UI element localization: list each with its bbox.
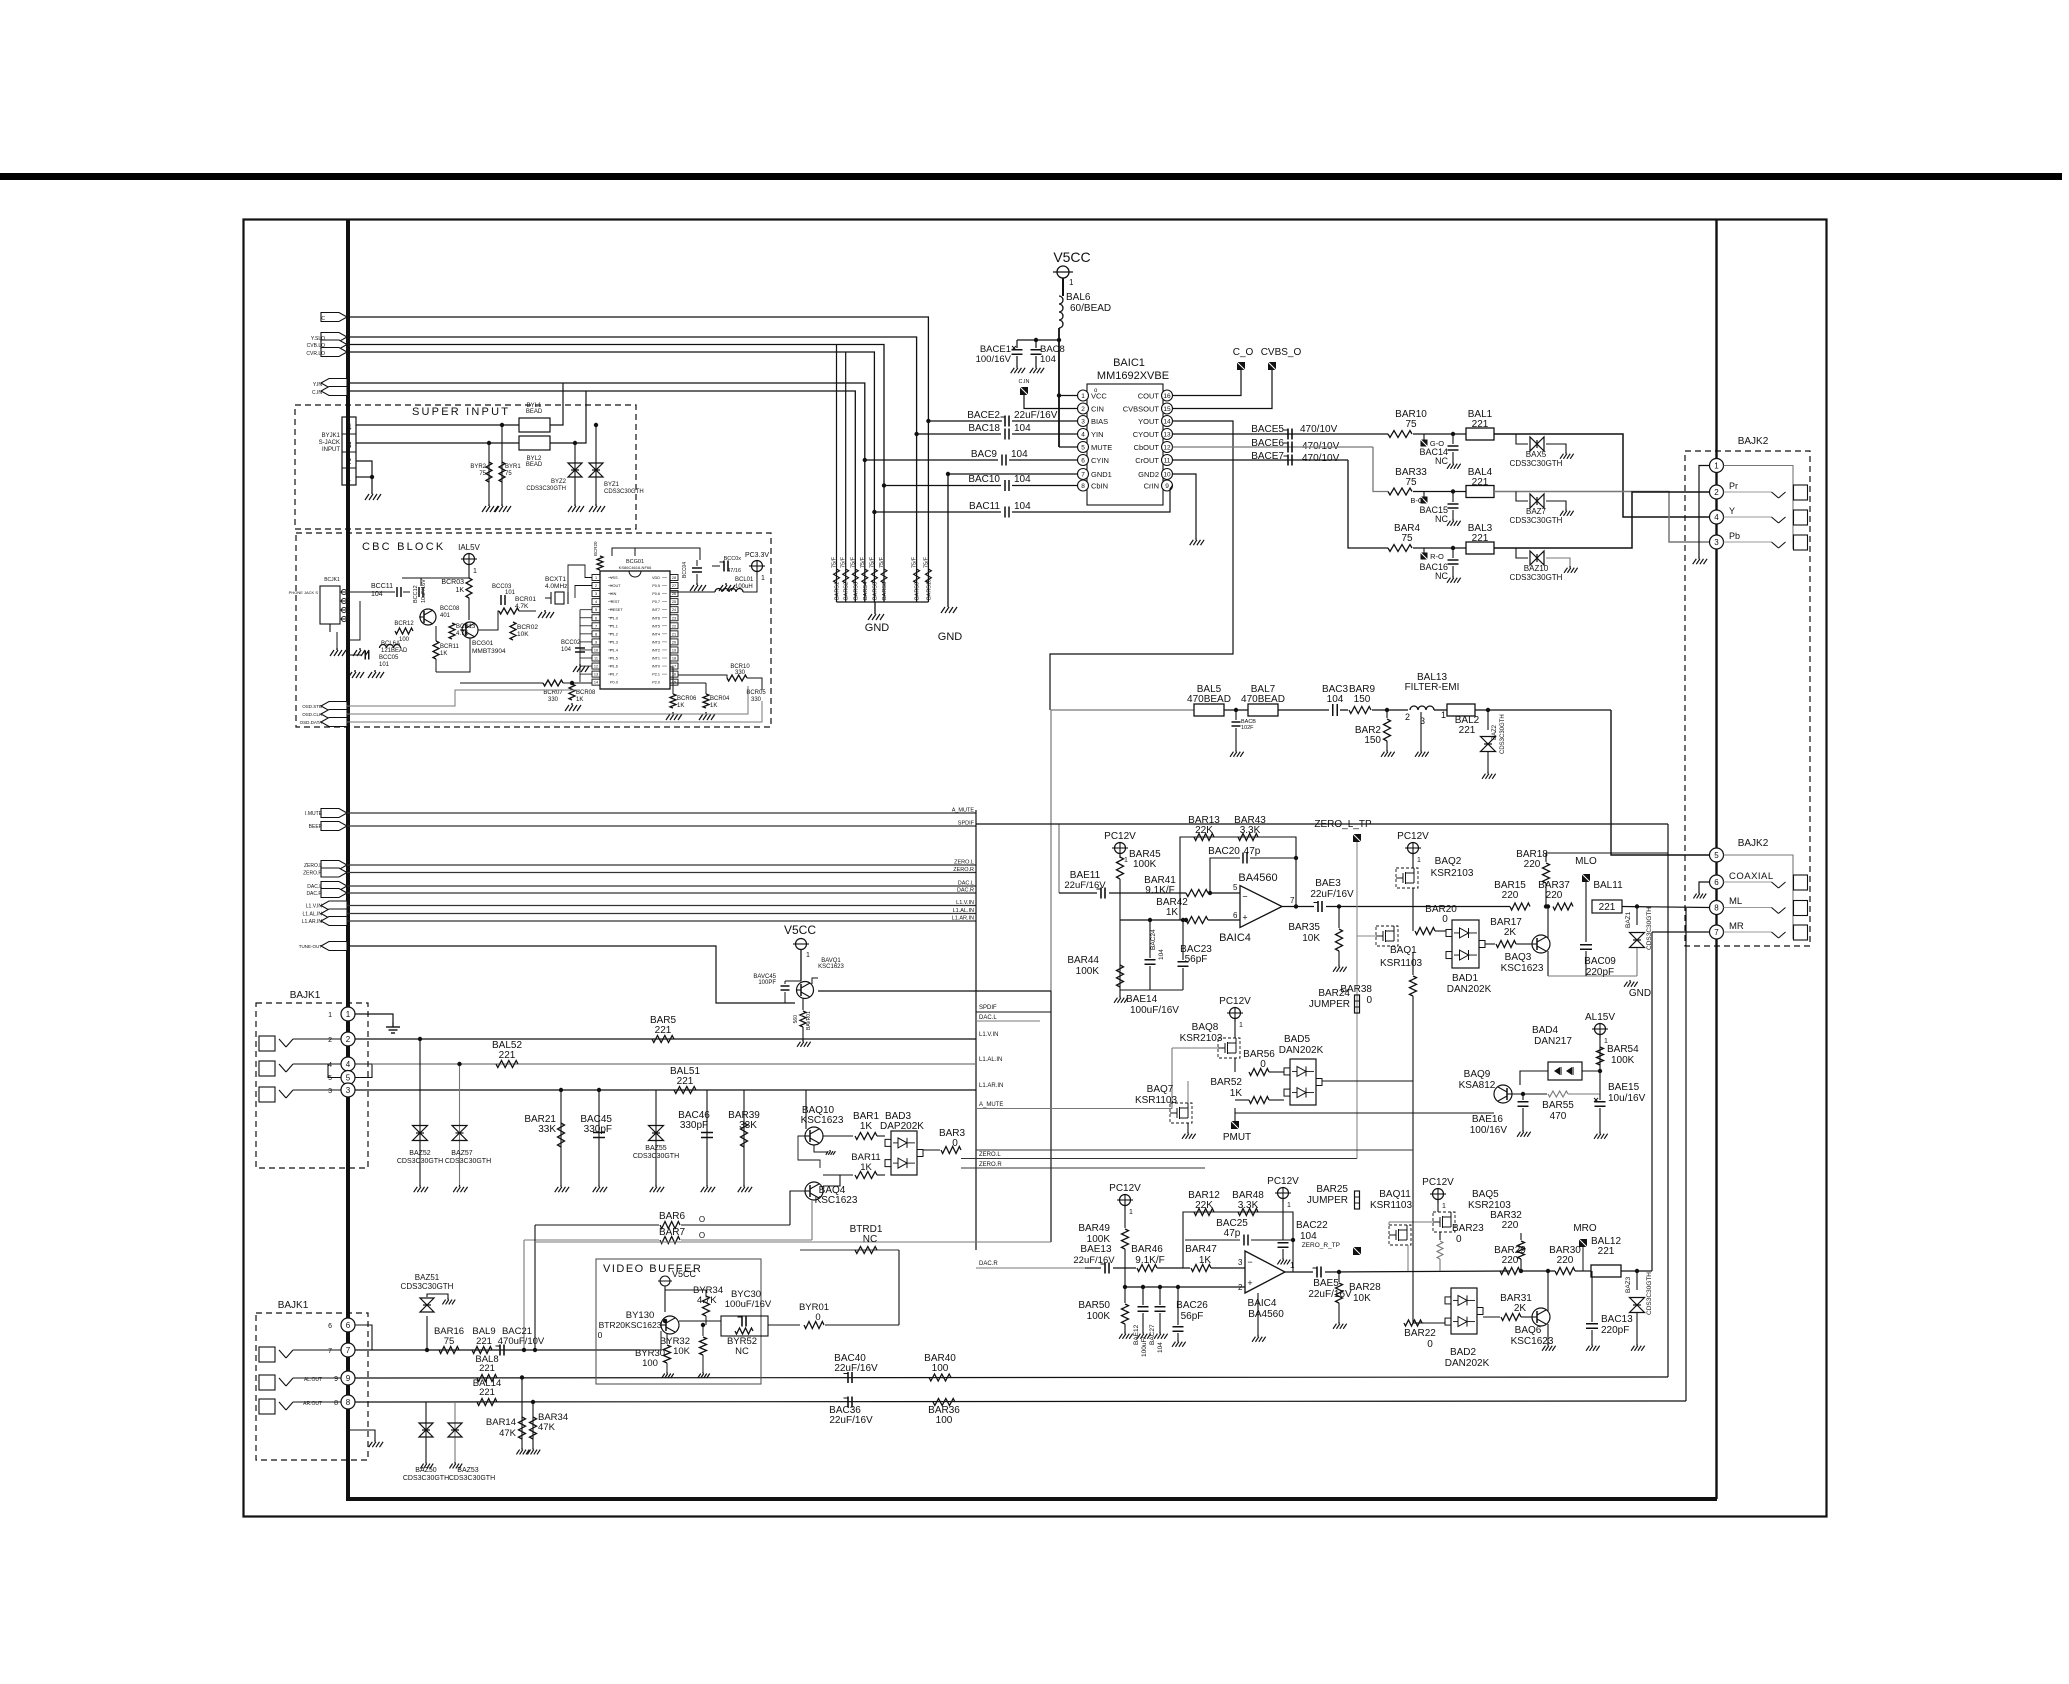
svg-text:VDD: VDD (652, 576, 660, 580)
node B-O (1421, 497, 1428, 504)
svg-text:BAZ1: BAZ1 (1625, 911, 1632, 928)
ground (BAZ55) (655, 1185, 657, 1187)
svg-text:BAR47: BAR47 (1185, 1244, 1217, 1255)
pin5 MUTE stub (1059, 446, 1078, 448)
svg-text:L1.AL.IN: L1.AL.IN (303, 912, 323, 918)
svg-text:BEAD: BEAD (526, 409, 543, 415)
svg-text:Y: Y (1729, 506, 1735, 516)
wire YOUT (pin14) to filter riser (1050, 421, 1233, 710)
svg-text:1: 1 (1069, 278, 1074, 287)
ground (BAJK1 lower) (374, 1440, 376, 1442)
ground (BAC14) (1452, 462, 1454, 464)
BAIC1 pin 15 CVBSOUT (1162, 403, 1173, 414)
svg-text:CVBSOUT: CVBSOUT (1123, 405, 1160, 414)
svg-text:BCL6A: BCL6A (381, 641, 400, 647)
svg-text:330pF: 330pF (584, 1124, 612, 1135)
wire BAQ10 emitter to gnd tick (814, 1145, 828, 1152)
svg-text:2K: 2K (1514, 1303, 1527, 1314)
wire AR_OUT riser right (1685, 908, 1687, 1401)
svg-text:22uF/16V: 22uF/16V (829, 1415, 873, 1426)
connector arrow CVB.LO (321, 340, 347, 349)
wire DAC.L entry (976, 1020, 1040, 1022)
svg-text:47p: 47p (1224, 1228, 1241, 1239)
svg-text:5: 5 (1714, 851, 1719, 860)
svg-text:DAC.R: DAC.R (306, 891, 322, 897)
wire filter riser (1050, 710, 1052, 991)
svg-text:BAR22: BAR22 (1404, 1328, 1436, 1339)
resistor BAR39 33K (743, 1090, 745, 1185)
svg-text:0: 0 (1442, 914, 1448, 925)
svg-text:DAC.L: DAC.L (958, 881, 974, 887)
test point ZERO_R_TP (1353, 1247, 1361, 1255)
svg-text:SPDIF: SPDIF (958, 821, 975, 827)
svg-text:VSS: VSS (610, 576, 618, 580)
jack Y (1724, 516, 1772, 518)
svg-text:104: 104 (1040, 354, 1056, 365)
BAIC1 pin 16 COUT (1162, 390, 1173, 401)
svg-text:PC12V: PC12V (1104, 831, 1136, 842)
svg-text:47p: 47p (1244, 846, 1261, 857)
wire y853 stub (1546, 852, 1668, 854)
svg-text:5: 5 (1081, 445, 1085, 452)
capacitor BAE12 100uF/16V (1142, 1287, 1144, 1305)
diode BAZ2 CDS3C30GTH to gnd (1486, 708, 1490, 712)
svg-text:BAD2: BAD2 (1450, 1347, 1477, 1358)
resistor BYR2 75 (488, 443, 490, 504)
svg-text:1K: 1K (1230, 1088, 1243, 1099)
wire DAC.L bus (347, 885, 976, 887)
svg-text:DAC.R: DAC.R (979, 1261, 998, 1267)
wire pin7 GND1 (986, 473, 1078, 475)
svg-text:104: 104 (1014, 474, 1031, 485)
svg-text:22uF/16V: 22uF/16V (1310, 889, 1354, 900)
svg-text:TUNE-OUT: TUNE-OUT (299, 944, 322, 949)
ground (BAC8) (1035, 366, 1037, 368)
feedback loop (R) (1183, 1212, 1293, 1272)
svg-text:1K: 1K (1166, 907, 1179, 918)
wire audio loop top edge (976, 823, 1668, 825)
ground (BACE1) (1016, 366, 1018, 368)
ground (BAZ53) (454, 1462, 456, 1464)
svg-text:5: 5 (595, 608, 597, 612)
ferrite BAL2 221 (1447, 704, 1475, 716)
BAIC1 pin 3 BIAS (1078, 416, 1089, 427)
wire L1.AR.IN bus (347, 920, 976, 922)
svg-text:BAR24: BAR24 (1318, 988, 1350, 999)
power PC12V (BAQ8) (1230, 1008, 1241, 1019)
svg-text:BAJK1: BAJK1 (278, 1300, 309, 1311)
svg-text:P1.2: P1.2 (610, 632, 618, 636)
svg-text:221: 221 (479, 1387, 495, 1398)
SUPER INPUT dashed box (295, 405, 636, 529)
svg-text:220: 220 (1502, 1220, 1519, 1231)
svg-text:6: 6 (1714, 878, 1719, 887)
svg-text:KSR2103: KSR2103 (1431, 868, 1474, 879)
ground (BAC13) (1591, 1344, 1593, 1346)
svg-text:BYR01: BYR01 (799, 1302, 829, 1313)
node R-O (1421, 553, 1428, 560)
svg-text:BAE14: BAE14 (1126, 994, 1158, 1005)
svg-text:BCR01: BCR01 (515, 596, 536, 603)
diode BAX5 CDS3C30GTH (1516, 434, 1528, 444)
svg-text:8: 8 (595, 632, 597, 636)
svg-text:7: 7 (346, 1346, 351, 1355)
svg-text:104: 104 (561, 647, 572, 653)
svg-text:4: 4 (595, 600, 597, 604)
svg-text:ZERO.L: ZERO.L (954, 860, 974, 866)
svg-text:BCC0x: BCC0x (724, 556, 742, 562)
svg-text:104: 104 (1014, 501, 1031, 512)
svg-text:BAZ55: BAZ55 (645, 1145, 667, 1152)
svg-text:8: 8 (1081, 483, 1085, 490)
svg-text:PC3.3V: PC3.3V (745, 552, 769, 559)
svg-text:1: 1 (1287, 1202, 1291, 1209)
ground (BAC27) (1159, 1332, 1161, 1334)
wire mute row to lower block (976, 1149, 1413, 1151)
wire C.IN (347, 391, 855, 602)
svg-text:1K: 1K (677, 703, 684, 709)
svg-text:1: 1 (346, 1010, 351, 1019)
svg-text:100: 100 (932, 1363, 949, 1374)
ground (BAC15) (1452, 519, 1454, 521)
wire C to BAIC1 (terminated) (347, 317, 928, 602)
svg-text:L1.AR.IN: L1.AR.IN (979, 1083, 1003, 1089)
svg-text:75: 75 (1405, 419, 1417, 430)
svg-text:20: 20 (672, 640, 676, 644)
wire BAQ7 net (1172, 1047, 1218, 1049)
feedback loop (L) (1180, 837, 1296, 920)
svg-text:PC12V: PC12V (1397, 831, 1429, 842)
MCU BCG01 KS86C4616 (600, 571, 670, 689)
svg-text:470uF/10V: 470uF/10V (498, 1336, 545, 1347)
svg-text:22uF/16V: 22uF/16V (834, 1363, 878, 1374)
svg-text:4: 4 (346, 422, 351, 432)
connector arrow BEEP (321, 822, 347, 831)
wire audio loop right edge (AL feedback riser) (1667, 824, 1669, 1377)
svg-text:CBC BLOCK: CBC BLOCK (362, 541, 445, 553)
svg-text:PMUT: PMUT (1223, 1132, 1251, 1143)
svg-text:L1.V.IN: L1.V.IN (979, 1032, 998, 1038)
svg-text:DAC.R: DAC.R (957, 888, 974, 894)
svg-text:Y.IN: Y.IN (313, 382, 322, 388)
jack (pin4) (259, 1061, 275, 1076)
BAJK2 pin 7 MR (1710, 925, 1724, 939)
svg-text:GND1: GND1 (1091, 470, 1112, 479)
svg-text:NC: NC (863, 1234, 877, 1245)
wire BACE6 fan down (1373, 447, 1388, 492)
transistor BAQ3 KSC1623 (1532, 935, 1550, 953)
svg-text:3: 3 (346, 440, 351, 450)
svg-text:V5CC: V5CC (672, 1269, 697, 1279)
svg-text:ZERO_L_TP: ZERO_L_TP (1314, 819, 1372, 830)
svg-text:100: 100 (936, 1415, 953, 1426)
svg-text:1: 1 (347, 476, 351, 483)
svg-text:BAVR01: BAVR01 (806, 1011, 812, 1030)
svg-text:BAC22: BAC22 (1296, 1220, 1328, 1231)
wire pin10 GND2 to ground (1173, 474, 1197, 538)
wire BAQ10 base from BAR7 (798, 1136, 820, 1168)
resistor BCR06 1K (670, 694, 676, 708)
svg-text:11: 11 (1164, 458, 1171, 465)
wire pin6 to ground (1699, 882, 1710, 892)
resistor BCR01 4.7K (499, 608, 519, 614)
svg-text:220pF: 220pF (1586, 967, 1614, 978)
svg-text:PHONE JACK S: PHONE JACK S (289, 590, 319, 595)
svg-text:BCC12: BCC12 (413, 585, 419, 603)
svg-text:1K: 1K (576, 697, 583, 703)
capacitor BAC16 NC (1451, 546, 1455, 550)
svg-text:L1.AR.IN: L1.AR.IN (302, 919, 323, 925)
svg-text:18: 18 (672, 657, 676, 661)
svg-text:12: 12 (1163, 445, 1171, 452)
VIDEO BUFFER box (596, 1259, 761, 1384)
svg-text:6: 6 (1081, 458, 1085, 465)
svg-text:150: 150 (1354, 694, 1371, 705)
svg-text:DAN217: DAN217 (1534, 1036, 1572, 1047)
svg-text:TEST: TEST (610, 600, 620, 604)
svg-text:BAL6: BAL6 (1066, 292, 1091, 303)
svg-text:221: 221 (655, 1025, 672, 1036)
power PC12V (BAQ5) (1433, 1189, 1444, 1200)
svg-text:MUTE: MUTE (1091, 443, 1112, 452)
BAJK2 pin 3 Pb (1710, 535, 1724, 549)
svg-text:1: 1 (1239, 1022, 1243, 1029)
wire pin6 ground stub (348, 1409, 375, 1440)
wire video buffer out riser (898, 1250, 900, 1325)
ferrite bead BYL2 (519, 436, 550, 450)
transistor BY130 BTR20KSC1623 (661, 1316, 679, 1334)
svg-text:8: 8 (1714, 904, 1719, 913)
svg-text:P1.3: P1.3 (610, 640, 618, 644)
svg-text:CDS3C30GTH: CDS3C30GTH (401, 1282, 454, 1291)
svg-text:S-JACK: S-JACK (319, 440, 340, 446)
svg-text:BCC08: BCC08 (440, 606, 460, 612)
svg-text:PC12V: PC12V (1422, 1177, 1454, 1188)
svg-text:104: 104 (1327, 694, 1344, 705)
wire ZERO_L vertical (gray) (1356, 842, 1358, 1159)
connector arrow Y.IN (321, 379, 347, 388)
svg-text:10: 10 (1163, 472, 1171, 479)
ground (BYR2/BYR1) (488, 504, 490, 506)
svg-text:BARS9: BARS9 (915, 582, 921, 600)
resistor BYR32 10K (702, 1325, 704, 1336)
wire BAR52-BAQ9 row (1235, 1112, 1494, 1114)
svg-text:BCR12: BCR12 (394, 621, 414, 627)
wire MR riser to BAJK2 pin7 (1651, 932, 1653, 1271)
svg-text:ZERO_R_TP: ZERO_R_TP (1302, 1242, 1340, 1249)
svg-text:4: 4 (328, 1062, 332, 1069)
wire CVR.LO (347, 352, 874, 602)
svg-text:10K: 10K (673, 1346, 691, 1357)
BAJK1 pin 3 (341, 1083, 355, 1097)
svg-text:P0.7: P0.7 (652, 600, 660, 604)
svg-text:221: 221 (499, 1050, 516, 1061)
wires BCR10/BCR05 net (678, 675, 727, 678)
svg-text:CDS3C30GTH: CDS3C30GTH (604, 489, 644, 495)
diode BYZ1 CDS3C30GTH (595, 425, 597, 504)
BAIC1 pin 4 YIN (1078, 429, 1089, 440)
svg-text:CVBS_O: CVBS_O (1261, 347, 1302, 358)
wire MR row to riser (1621, 1270, 1652, 1272)
wire pin3 (C) (356, 442, 519, 444)
svg-text:L1.AL.IN: L1.AL.IN (953, 908, 974, 914)
svg-text:10K: 10K (1302, 933, 1320, 944)
svg-text:P1.5: P1.5 (610, 657, 618, 661)
ground (BAR2) (1386, 750, 1388, 752)
svg-text:CDS3C30GTH: CDS3C30GTH (445, 1158, 491, 1165)
wire SPDIF entry (976, 1011, 1051, 1013)
svg-text:221: 221 (1598, 1246, 1615, 1257)
svg-text:BAZ52: BAZ52 (409, 1150, 431, 1157)
BAIC1 pin 1 VCC (1078, 390, 1089, 401)
svg-text:CDS3C30GTH: CDS3C30GTH (633, 1153, 679, 1160)
wire pin4 (Y) (356, 424, 519, 426)
svg-text:1: 1 (1129, 1209, 1133, 1216)
svg-text:1K: 1K (440, 651, 447, 657)
svg-text:4.7K: 4.7K (515, 603, 529, 610)
svg-text:220: 220 (1524, 859, 1541, 870)
connector arrow L1.V.IN (321, 901, 347, 910)
capacitor BAC24 104 (1149, 920, 1151, 958)
ground (BYJK1) (371, 492, 373, 494)
wire BAQ10 collector (805, 1090, 807, 1129)
svg-text:KSC1623: KSC1623 (815, 1195, 858, 1206)
BAIC1 pin 7 GND1 (1078, 469, 1089, 480)
wire BAL2 out (1475, 709, 1611, 711)
svg-text:75: 75 (479, 471, 486, 477)
svg-text:BCC05: BCC05 (379, 655, 399, 661)
diode BAZ1 CDS3C30GTH (1636, 907, 1638, 926)
svg-text:221: 221 (479, 1363, 495, 1374)
wire BAQ3 collector to ML row (1547, 907, 1549, 939)
svg-text:BAR35: BAR35 (1288, 922, 1320, 933)
power PC12V (opamp L) (1115, 843, 1126, 854)
wire local gnd bus (L) (1120, 989, 1183, 991)
svg-text:BAC10: BAC10 (968, 474, 1000, 485)
svg-text:100: 100 (399, 637, 410, 643)
wire BTRD1 row (800, 1249, 899, 1251)
svg-text:0: 0 (1456, 1234, 1462, 1245)
svg-text:L1.AR.IN: L1.AR.IN (952, 916, 974, 922)
ground (BAR50) (1124, 1332, 1126, 1334)
svg-text:KS86C4616-NF66: KS86C4616-NF66 (619, 565, 652, 570)
svg-text:KSC1623: KSC1623 (818, 964, 844, 970)
svg-text:KSC1623: KSC1623 (801, 1115, 844, 1126)
BAIC1 pin 14 YOUT (1162, 416, 1173, 427)
ground (BAE15) (1599, 1132, 1601, 1134)
svg-text:BAR28: BAR28 (1349, 1282, 1381, 1293)
wires around parallel block (679, 1320, 721, 1322)
svg-text:100uH: 100uH (735, 584, 753, 590)
svg-text:19: 19 (672, 648, 676, 652)
svg-text:BAIC4: BAIC4 (1248, 1298, 1277, 1309)
svg-text:9: 9 (595, 640, 597, 644)
transistor BCC08 (420, 609, 436, 625)
connector arrow DAC.L (321, 882, 347, 891)
earth ground (BAJK1) (392, 1022, 394, 1027)
svg-text:BAR6: BAR6 (659, 1211, 686, 1222)
svg-text:BAZ57: BAZ57 (451, 1150, 473, 1157)
svg-text:470/10V: 470/10V (1302, 453, 1340, 464)
svg-text:COUT: COUT (1138, 392, 1160, 401)
wire L1.AR.IN row from pin3 (355, 1089, 976, 1091)
capacitor BAC8 104 (1035, 340, 1037, 348)
svg-text:P0.6: P0.6 (652, 592, 660, 596)
svg-text:A_MUTE: A_MUTE (979, 1102, 1003, 1108)
svg-text:BA4560: BA4560 (1248, 1309, 1284, 1320)
svg-text:22uF/16V: 22uF/16V (1014, 410, 1058, 421)
wire Y.IN (347, 383, 865, 602)
svg-text:CDS3C30GTH: CDS3C30GTH (1500, 714, 1506, 754)
svg-text:BAE5: BAE5 (1313, 1278, 1339, 1289)
connector arrow ZERO.L (321, 861, 347, 870)
svg-text:BARS5: BARS5 (872, 582, 878, 600)
BAL13 center tap to gnd (1420, 712, 1422, 750)
BAIC1 pin 13 CYOUT (1162, 429, 1173, 440)
svg-text:PC12V: PC12V (1109, 1183, 1141, 1194)
capacitor BACB 102F to gnd (1234, 708, 1238, 712)
ground (BAE12) (1142, 1332, 1144, 1334)
svg-text:560: 560 (793, 1015, 799, 1024)
svg-text:BCC04: BCC04 (682, 562, 688, 578)
svg-text:27: 27 (672, 584, 676, 588)
svg-text:MRO: MRO (1573, 1223, 1597, 1234)
svg-text:ML: ML (1729, 896, 1742, 907)
wire BAQ9 emitter row to BAR55 (1512, 1093, 1547, 1095)
ground (BAZ2) (1487, 772, 1489, 774)
BAIC1 pin 12 CbOUT (1162, 442, 1173, 453)
svg-text:2: 2 (347, 457, 352, 466)
diode BAZ50 CDS3C30GTH (425, 1402, 427, 1462)
svg-text:BAD1: BAD1 (1452, 973, 1479, 984)
svg-text:DAC.L: DAC.L (979, 1015, 997, 1021)
connector arrow TUNE-OUT (321, 942, 347, 951)
svg-text:BEEP: BEEP (309, 824, 323, 830)
svg-text:CDS3C30GTH: CDS3C30GTH (403, 1475, 449, 1482)
diode BAZ3 CDS3C30GTH (1635, 1269, 1639, 1273)
svg-text:75: 75 (1405, 477, 1417, 488)
svg-text:1: 1 (1081, 393, 1085, 400)
svg-text:7: 7 (1290, 896, 1295, 905)
wire BAQ1 gate (1357, 935, 1376, 937)
wire BAQ5 net (1389, 1221, 1433, 1223)
svg-text:XIN: XIN (610, 592, 617, 596)
svg-text:2: 2 (328, 1037, 332, 1044)
svg-text:BCC11: BCC11 (371, 583, 393, 590)
svg-text:75: 75 (1401, 533, 1413, 544)
svg-text:KSA812: KSA812 (1459, 1080, 1496, 1091)
ground (GND2) (1195, 538, 1197, 540)
svg-text:100/16V: 100/16V (1470, 1125, 1508, 1136)
svg-text:O: O (699, 1231, 705, 1240)
svg-text:150: 150 (1364, 735, 1381, 746)
svg-text:BAQ3: BAQ3 (1505, 952, 1532, 963)
wire ZERO.R (961, 1167, 1205, 1169)
svg-text:4: 4 (1081, 432, 1085, 439)
svg-text:CDS3C30GTH: CDS3C30GTH (1510, 573, 1563, 582)
svg-text:BAL11: BAL11 (1593, 880, 1623, 891)
svg-text:2: 2 (595, 584, 597, 588)
svg-text:KSR1103: KSR1103 (1370, 1200, 1413, 1211)
svg-text:100K: 100K (1133, 859, 1157, 870)
svg-text:MR: MR (1729, 921, 1744, 932)
resistor BYR1 75 (501, 425, 503, 504)
power AL15V (1595, 1024, 1606, 1035)
svg-text:BAR25: BAR25 (1316, 1184, 1348, 1195)
ground (BAZ50) (425, 1462, 427, 1464)
ground (BAC46) (706, 1185, 708, 1187)
power PC12V (BAQ2) (1408, 843, 1419, 854)
